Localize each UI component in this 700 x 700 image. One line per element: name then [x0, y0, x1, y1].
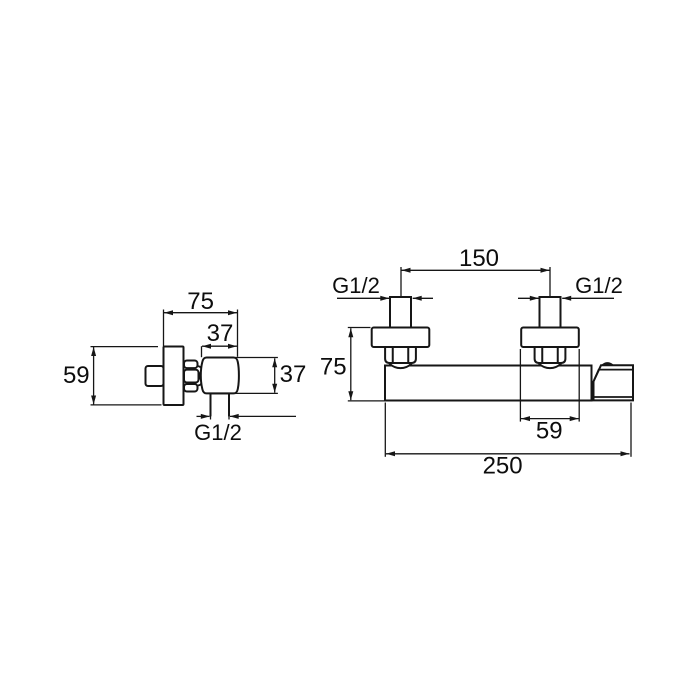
svg-text:250: 250: [483, 453, 523, 480]
svg-text:37: 37: [207, 320, 234, 347]
svg-text:75: 75: [320, 354, 347, 381]
svg-text:G1/2: G1/2: [332, 273, 380, 298]
svg-text:59: 59: [63, 362, 90, 389]
svg-text:G1/2: G1/2: [575, 273, 623, 298]
svg-text:G1/2: G1/2: [194, 420, 242, 445]
svg-text:150: 150: [459, 245, 499, 272]
svg-text:37: 37: [280, 361, 307, 388]
svg-text:75: 75: [187, 288, 214, 315]
svg-text:59: 59: [536, 418, 563, 445]
